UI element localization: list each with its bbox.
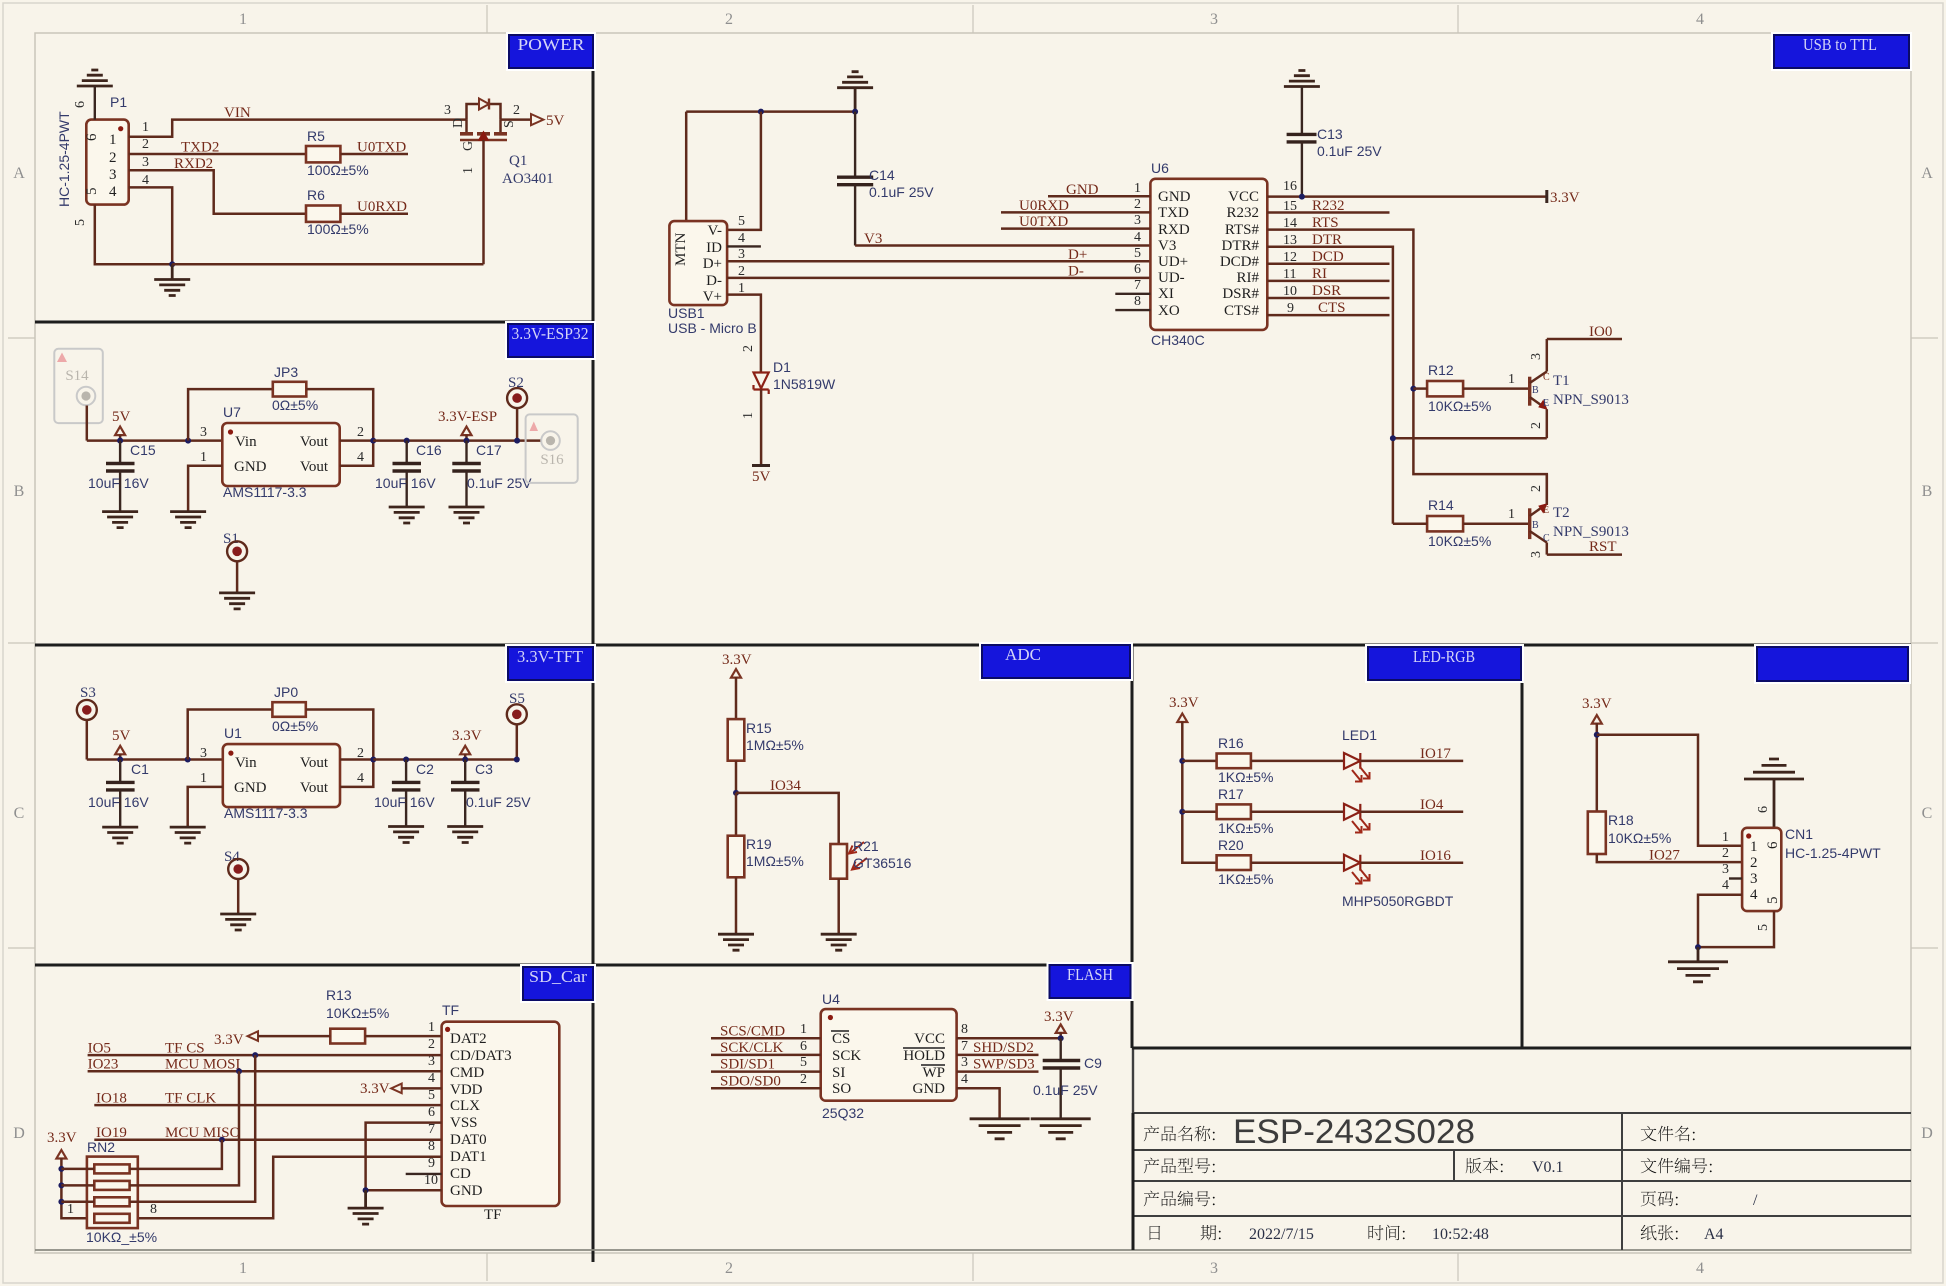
svg-text:ESP-2432S028: ESP-2432S028 (1233, 1113, 1475, 1151)
wire VCC pin16 to 3.3V (1267, 195, 1547, 198)
svg-text:1: 1 (239, 11, 247, 28)
wire DCD net (1267, 263, 1389, 266)
svg-text:C14: C14 (869, 167, 895, 183)
svg-text:4: 4 (428, 1071, 435, 1086)
wire 5V rail (87, 758, 223, 761)
svg-text:GND: GND (234, 459, 267, 475)
svg-text:3: 3 (109, 167, 117, 183)
svg-text:UD+: UD+ (1158, 254, 1188, 270)
svg-text:5V: 5V (546, 113, 565, 129)
svg-text:C: C (14, 805, 25, 822)
resistor R16 (1182, 760, 1216, 763)
ground (bottom rail) (154, 280, 190, 296)
wire pin5 to gnd (1698, 911, 1774, 947)
svg-text:SCS/CMD: SCS/CMD (720, 1024, 785, 1040)
wire DTR net (1267, 247, 1393, 524)
svg-text:4: 4 (1750, 887, 1758, 903)
svg-text:9: 9 (428, 1156, 435, 1171)
section divider horizontal y=1048 (1132, 1047, 1911, 1050)
svg-text:3: 3 (1210, 1260, 1218, 1277)
wire RXD2 (pin3) (129, 170, 306, 214)
svg-text:B: B (14, 483, 25, 500)
svg-text:3: 3 (1210, 11, 1218, 28)
svg-text:1: 1 (200, 450, 207, 465)
svg-text:8: 8 (1134, 294, 1141, 309)
svg-text:SWP/SD3: SWP/SD3 (973, 1057, 1035, 1073)
svg-text:0.1uF 25V: 0.1uF 25V (1317, 143, 1382, 159)
svg-text:DSR: DSR (1312, 283, 1341, 299)
section divider vertical x=1132 (1131, 645, 1134, 1048)
svg-text:8: 8 (150, 1202, 157, 1217)
svg-text:GT36516: GT36516 (853, 855, 912, 871)
wire VSS (pin6) to gnd (366, 1123, 442, 1191)
photoresistor R21 GT36516 (830, 844, 847, 879)
svg-text:C1: C1 (131, 761, 149, 777)
capacitor C3 (464, 760, 466, 782)
svg-text:2: 2 (1722, 846, 1729, 861)
svg-text:2: 2 (109, 150, 117, 166)
svg-text:3: 3 (1529, 353, 1544, 360)
svg-text:R6: R6 (307, 187, 325, 203)
svg-text:3.3V: 3.3V (1550, 190, 1580, 206)
svg-text:C16: C16 (416, 442, 442, 458)
svg-text:A4: A4 (1704, 1226, 1724, 1243)
svg-text:5V: 5V (112, 728, 131, 744)
svg-text:R20: R20 (1218, 837, 1244, 853)
svg-text:1: 1 (1750, 839, 1758, 855)
transistor Q1 (PMOS AO3401) (444, 99, 554, 265)
svg-text:MCU MISO: MCU MISO (165, 1125, 241, 1141)
svg-text:1KΩ±5%: 1KΩ±5% (1218, 820, 1274, 836)
svg-text:SDI/SD1: SDI/SD1 (720, 1057, 775, 1073)
zone tick marks (486, 5, 488, 33)
wire 3.3V to CN1 pin1 (1597, 735, 1742, 846)
svg-text:5: 5 (1134, 246, 1141, 261)
wire bottom rail to Q1 gate (172, 263, 483, 266)
svg-text:CMD: CMD (450, 1065, 484, 1081)
svg-text:IO5: IO5 (88, 1041, 111, 1057)
wire SDO/SD0 (711, 1087, 821, 1090)
svg-text:3.3V: 3.3V (360, 1081, 390, 1097)
svg-text:0Ω±5%: 0Ω±5% (272, 397, 318, 413)
label 3.3V-ESP32 (505, 321, 596, 360)
wire TF_CS (pin2) (88, 1054, 442, 1057)
svg-text:3: 3 (1722, 862, 1729, 877)
svg-text:2: 2 (142, 137, 149, 152)
wire VIN (pin1) (129, 120, 467, 137)
svg-text:VCC: VCC (914, 1031, 945, 1047)
svg-text:6: 6 (1765, 841, 1781, 849)
mount pad S16 (ghost) (526, 414, 578, 483)
label POWER (506, 32, 596, 71)
resistor R20 (1217, 855, 1251, 870)
ground above CN1 (inverted, large) (1744, 759, 1804, 779)
svg-text:LED-RGB: LED-RGB (1413, 647, 1475, 666)
capacitor C2 (403, 757, 409, 763)
wire RN2 row1 to MISO (130, 1140, 222, 1169)
svg-text:10KΩ_±5%: 10KΩ_±5% (86, 1229, 157, 1245)
svg-text:3.3V: 3.3V (452, 728, 482, 744)
svg-text:3: 3 (1529, 551, 1544, 558)
svg-text:3: 3 (1750, 871, 1758, 887)
svg-text:11: 11 (1283, 267, 1296, 282)
wire RN2 row1 left (61, 1168, 94, 1171)
resistor R17 (1182, 811, 1216, 814)
svg-text:7: 7 (428, 1122, 435, 1137)
svg-text:SD_Car: SD_Car (529, 967, 587, 986)
svg-text:MHP5050RGBDT: MHP5050RGBDT (1342, 893, 1454, 909)
svg-text:6: 6 (428, 1105, 435, 1120)
wire RN2 row3 left (61, 1201, 94, 1204)
svg-text:R16: R16 (1218, 735, 1244, 751)
svg-text:10:52:48: 10:52:48 (1432, 1226, 1489, 1243)
svg-text:RTS: RTS (1312, 215, 1339, 231)
wire R15 to node (735, 761, 738, 793)
svg-text:1: 1 (200, 771, 207, 786)
svg-text:3: 3 (142, 155, 149, 170)
svg-text:P1: P1 (110, 94, 127, 110)
svg-text:RI: RI (1312, 266, 1327, 282)
svg-text:CH340C: CH340C (1151, 332, 1205, 348)
svg-text:100Ω±5%: 100Ω±5% (307, 221, 369, 237)
svg-text:10KΩ±5%: 10KΩ±5% (1428, 398, 1491, 414)
svg-text:SO: SO (832, 1081, 851, 1097)
LED1 red element (1251, 760, 1344, 763)
svg-text:2: 2 (1134, 197, 1141, 212)
svg-text:RI#: RI# (1237, 270, 1260, 286)
svg-text:U0RXD: U0RXD (1019, 198, 1069, 214)
wire R12 to T1 base (1463, 387, 1530, 390)
svg-text:D: D (13, 1125, 25, 1142)
transistor T1 NPN_S9013 (1529, 339, 1629, 438)
svg-text:RXD2: RXD2 (174, 156, 213, 172)
transistor T2 NPN_S9013 (1529, 474, 1629, 558)
svg-text:C9: C9 (1084, 1055, 1102, 1071)
svg-text:5: 5 (738, 214, 745, 229)
svg-text:5: 5 (73, 219, 88, 226)
svg-text:E: E (1543, 398, 1549, 409)
svg-text:Vout: Vout (300, 434, 329, 450)
svg-text:HC-1.25-4PWT: HC-1.25-4PWT (1785, 845, 1881, 861)
wire RN2 rail (61, 1158, 87, 1218)
jumper JP3 (188, 389, 273, 441)
svg-text:CD/DAT3: CD/DAT3 (450, 1048, 512, 1064)
svg-text:D-: D- (706, 273, 722, 289)
svg-text:AMS1117-3.3: AMS1117-3.3 (223, 484, 307, 500)
section divider horizontal y=322 (35, 321, 593, 324)
svg-text:/: / (1753, 1192, 1758, 1209)
svg-text:TXD2: TXD2 (181, 140, 219, 156)
svg-text:6: 6 (1756, 806, 1771, 813)
wire 3.3V rail (373, 758, 517, 761)
svg-text:IO23: IO23 (88, 1057, 119, 1073)
svg-text:5: 5 (1756, 924, 1771, 931)
ground (C13 top, inverted) (1284, 71, 1320, 87)
wire MCU_MISO (pin7) (94, 1138, 441, 1141)
svg-text:7: 7 (961, 1039, 968, 1054)
svg-text:TF CLK: TF CLK (165, 1091, 216, 1107)
svg-text:1: 1 (142, 120, 149, 135)
svg-text:HOLD: HOLD (903, 1048, 945, 1064)
wire IO34 (736, 793, 839, 844)
svg-text:3.3V: 3.3V (214, 1032, 244, 1048)
resistor R19 (735, 793, 738, 836)
svg-text:RN2: RN2 (87, 1139, 115, 1155)
label SD_Car (520, 964, 596, 1003)
svg-text:U0TXD: U0TXD (1019, 214, 1068, 230)
svg-text:AO3401: AO3401 (502, 171, 554, 187)
svg-text:14: 14 (1283, 216, 1297, 231)
svg-text:0.1uF 25V: 0.1uF 25V (467, 475, 532, 491)
svg-text:XI: XI (1158, 286, 1174, 302)
svg-text:IO16: IO16 (1420, 848, 1451, 864)
svg-text:25Q32: 25Q32 (822, 1105, 864, 1121)
svg-text:3.3V: 3.3V (722, 652, 752, 668)
svg-text:RST: RST (1589, 539, 1617, 555)
capacitor C17 (465, 441, 467, 463)
svg-text:2: 2 (725, 1260, 733, 1277)
svg-text:1KΩ±5%: 1KΩ±5% (1218, 871, 1274, 887)
svg-text:2: 2 (1529, 422, 1544, 429)
resistor R14 (1427, 516, 1463, 531)
svg-text:A: A (1921, 165, 1933, 182)
svg-text:DTR#: DTR# (1222, 238, 1260, 254)
svg-text:10uF 16V: 10uF 16V (88, 794, 149, 810)
svg-text:U1: U1 (224, 725, 242, 741)
svg-text:6: 6 (84, 133, 100, 141)
svg-text:R13: R13 (326, 987, 352, 1003)
wire TF_CLK (pin5) (94, 1104, 441, 1107)
svg-text:100Ω±5%: 100Ω±5% (307, 162, 369, 178)
capacitor C1 (119, 760, 121, 782)
svg-text:0.1uF 25V: 0.1uF 25V (869, 184, 934, 200)
IC U6 CH340C (1150, 179, 1267, 330)
svg-text:1: 1 (109, 132, 117, 148)
svg-text:3.3V-ESP: 3.3V-ESP (438, 409, 497, 425)
svg-text:VSS: VSS (450, 1115, 478, 1131)
svg-text:DAT2: DAT2 (450, 1031, 487, 1047)
svg-text:R15: R15 (746, 720, 772, 736)
wire U7 Vout pin4 (340, 441, 374, 466)
svg-text:3: 3 (738, 247, 745, 262)
svg-text:16: 16 (1283, 179, 1297, 194)
connector CN1 (1742, 828, 1781, 911)
svg-text:DAT1: DAT1 (450, 1149, 487, 1165)
svg-text:13: 13 (1283, 233, 1297, 248)
label empty (CN1 section) (1754, 644, 1911, 684)
svg-text:IO27: IO27 (1649, 848, 1680, 864)
svg-text:9: 9 (1287, 301, 1294, 316)
svg-text:6: 6 (1134, 262, 1141, 277)
label 3.3V-TFT (505, 644, 596, 683)
svg-text:NPN_S9013: NPN_S9013 (1553, 392, 1629, 408)
svg-text:Vout: Vout (300, 755, 329, 771)
wire U1 Vout pin4 (340, 760, 373, 787)
regulator U7 AMS1117-3.3 (222, 423, 339, 486)
wire MTN to USB1 (685, 112, 688, 222)
wire top rail (686, 110, 855, 113)
svg-text:1: 1 (800, 1022, 807, 1037)
svg-text:R17: R17 (1218, 786, 1244, 802)
wire U0RXD (340, 212, 408, 215)
svg-text:4: 4 (142, 173, 149, 188)
svg-text:5: 5 (1765, 897, 1781, 905)
wire T1 emitter to DTR line (1393, 437, 1547, 440)
svg-text:C13: C13 (1317, 126, 1343, 142)
svg-text:1: 1 (239, 1260, 247, 1277)
svg-text:2: 2 (1750, 855, 1758, 871)
svg-text:B: B (1532, 385, 1539, 396)
wire U7 GND pin1 (188, 466, 222, 512)
pin XI XO stubs (1115, 293, 1150, 295)
svg-text:10: 10 (424, 1173, 438, 1188)
svg-text:SHD/SD2: SHD/SD2 (973, 1040, 1034, 1056)
capacitor C15 (119, 441, 121, 463)
svg-text:D: D (451, 118, 466, 128)
svg-text:IO0: IO0 (1589, 324, 1612, 340)
svg-text:4: 4 (738, 231, 745, 246)
svg-text:4: 4 (1696, 1260, 1704, 1277)
svg-text:4: 4 (1722, 878, 1729, 893)
svg-text:RXD: RXD (1158, 222, 1190, 238)
svg-text:2: 2 (741, 345, 756, 352)
connector P1 (86, 120, 128, 205)
svg-text:4: 4 (961, 1072, 968, 1087)
svg-text:1: 1 (1722, 830, 1729, 845)
svg-text:B: B (1532, 520, 1539, 531)
svg-text:8: 8 (961, 1022, 968, 1037)
pin3 stub (1729, 877, 1742, 879)
svg-text:1N5819W: 1N5819W (773, 376, 836, 392)
title row4 (1150, 1226, 1161, 1240)
svg-text:CTS#: CTS# (1224, 303, 1260, 319)
svg-text:R232: R232 (1312, 198, 1345, 214)
svg-text:3.3V-TFT: 3.3V-TFT (517, 647, 584, 666)
svg-text:SI: SI (832, 1065, 845, 1081)
svg-text:USB1: USB1 (668, 305, 705, 321)
wire R14 to T2 base (1463, 522, 1530, 525)
wire RN2 row3 to CS (130, 1055, 256, 1202)
svg-text:3.3V: 3.3V (1582, 696, 1612, 712)
svg-text:Vin: Vin (235, 434, 257, 450)
svg-text:C: C (1543, 533, 1550, 544)
section divider vertical x=1522 (1521, 645, 1524, 1048)
svg-text:2022/7/15: 2022/7/15 (1249, 1226, 1314, 1243)
wire SDI/SD1 (711, 1070, 821, 1073)
svg-text:GND: GND (1158, 189, 1191, 205)
svg-text:3: 3 (200, 746, 207, 761)
wire P1 pin6 (94, 86, 96, 120)
svg-text:Q1: Q1 (509, 153, 527, 169)
capacitor C13 (1301, 87, 1303, 134)
svg-text:JP3: JP3 (274, 364, 298, 380)
wire P1 pin5 to bottom rail (95, 205, 172, 265)
svg-text:IO17: IO17 (1420, 746, 1451, 762)
svg-text:2: 2 (800, 1072, 807, 1087)
svg-text:FLASH: FLASH (1067, 965, 1113, 984)
wire TXD2 (pin2) (129, 153, 306, 156)
section divider horizontal y=965 (35, 964, 1132, 967)
svg-text:R12: R12 (1428, 362, 1454, 378)
svg-text:XO: XO (1158, 303, 1180, 319)
svg-text:R5: R5 (307, 128, 325, 144)
jumper JP0 (188, 710, 273, 760)
Q1 body diode (467, 104, 480, 120)
ground (USB top, inverted) (837, 72, 873, 88)
svg-text:DTR: DTR (1312, 232, 1342, 248)
svg-text:T1: T1 (1553, 373, 1570, 389)
svg-text:SCK/CLK: SCK/CLK (720, 1040, 784, 1056)
wire MCU_MOSI (pin3) (88, 1070, 442, 1073)
svg-text:10uF 16V: 10uF 16V (374, 794, 435, 810)
wire DSR net (1267, 297, 1389, 300)
svg-text:LED1: LED1 (1342, 727, 1377, 743)
svg-text:R18: R18 (1608, 812, 1634, 828)
resistor network RN2 (87, 1157, 138, 1229)
svg-text:NPN_S9013: NPN_S9013 (1553, 524, 1629, 540)
wire GND (pin10) (366, 1189, 442, 1192)
svg-text:UD-: UD- (1158, 270, 1185, 286)
svg-text:3.3V-ESP32: 3.3V-ESP32 (512, 324, 589, 343)
svg-text:2: 2 (428, 1037, 435, 1052)
svg-text:4: 4 (1696, 11, 1704, 28)
svg-text:10KΩ±5%: 10KΩ±5% (1428, 533, 1491, 549)
svg-text:USB - Micro B: USB - Micro B (668, 320, 757, 336)
svg-text:10KΩ±5%: 10KΩ±5% (326, 1005, 389, 1021)
svg-text:USB to TTL: USB to TTL (1803, 35, 1877, 54)
svg-text:VDD: VDD (450, 1082, 483, 1098)
svg-text:C: C (1922, 805, 1933, 822)
svg-text:ID: ID (706, 240, 722, 256)
wire RI net (1267, 280, 1389, 283)
svg-text:U4: U4 (822, 991, 840, 1007)
svg-text:SDO/SD0: SDO/SD0 (720, 1074, 781, 1090)
svg-text:TF CS: TF CS (165, 1041, 205, 1057)
svg-text:IO18: IO18 (96, 1091, 127, 1107)
svg-text:D-: D- (1068, 264, 1084, 280)
svg-text:CD: CD (450, 1166, 471, 1182)
svg-text:D1: D1 (773, 359, 791, 375)
svg-text:5: 5 (800, 1055, 807, 1070)
label FLASH (1047, 962, 1134, 1001)
title row2 (1144, 1158, 1215, 1174)
svg-text:CN1: CN1 (1785, 826, 1813, 842)
svg-text:3: 3 (444, 103, 451, 118)
label USB to TTL (1771, 32, 1912, 71)
svg-text:S3: S3 (80, 685, 96, 701)
svg-text:S4: S4 (224, 849, 240, 865)
wire 3.3V-ESP rail (373, 439, 541, 442)
svg-text:WP: WP (923, 1065, 946, 1081)
svg-text:DAT0: DAT0 (450, 1132, 487, 1148)
svg-text:1: 1 (67, 1202, 74, 1217)
svg-text:GND: GND (913, 1081, 946, 1097)
wire U1 Vout pin2 (340, 758, 373, 761)
label LED-RGB (1365, 644, 1524, 683)
svg-text:V0.1: V0.1 (1532, 1159, 1564, 1176)
svg-text:5: 5 (428, 1088, 435, 1103)
svg-text:D: D (1921, 1125, 1933, 1142)
wire RN2 row2 left (61, 1184, 94, 1187)
svg-text:10uF 16V: 10uF 16V (88, 475, 149, 491)
svg-text:GND: GND (1066, 182, 1099, 198)
wire 5V rail (87, 439, 223, 442)
wire V- pin5 (727, 112, 761, 230)
svg-text:MTN: MTN (673, 233, 689, 267)
node bottom junction (169, 261, 175, 267)
wire IO27 (1597, 854, 1742, 862)
section divider vertical x=593 (592, 33, 595, 1262)
